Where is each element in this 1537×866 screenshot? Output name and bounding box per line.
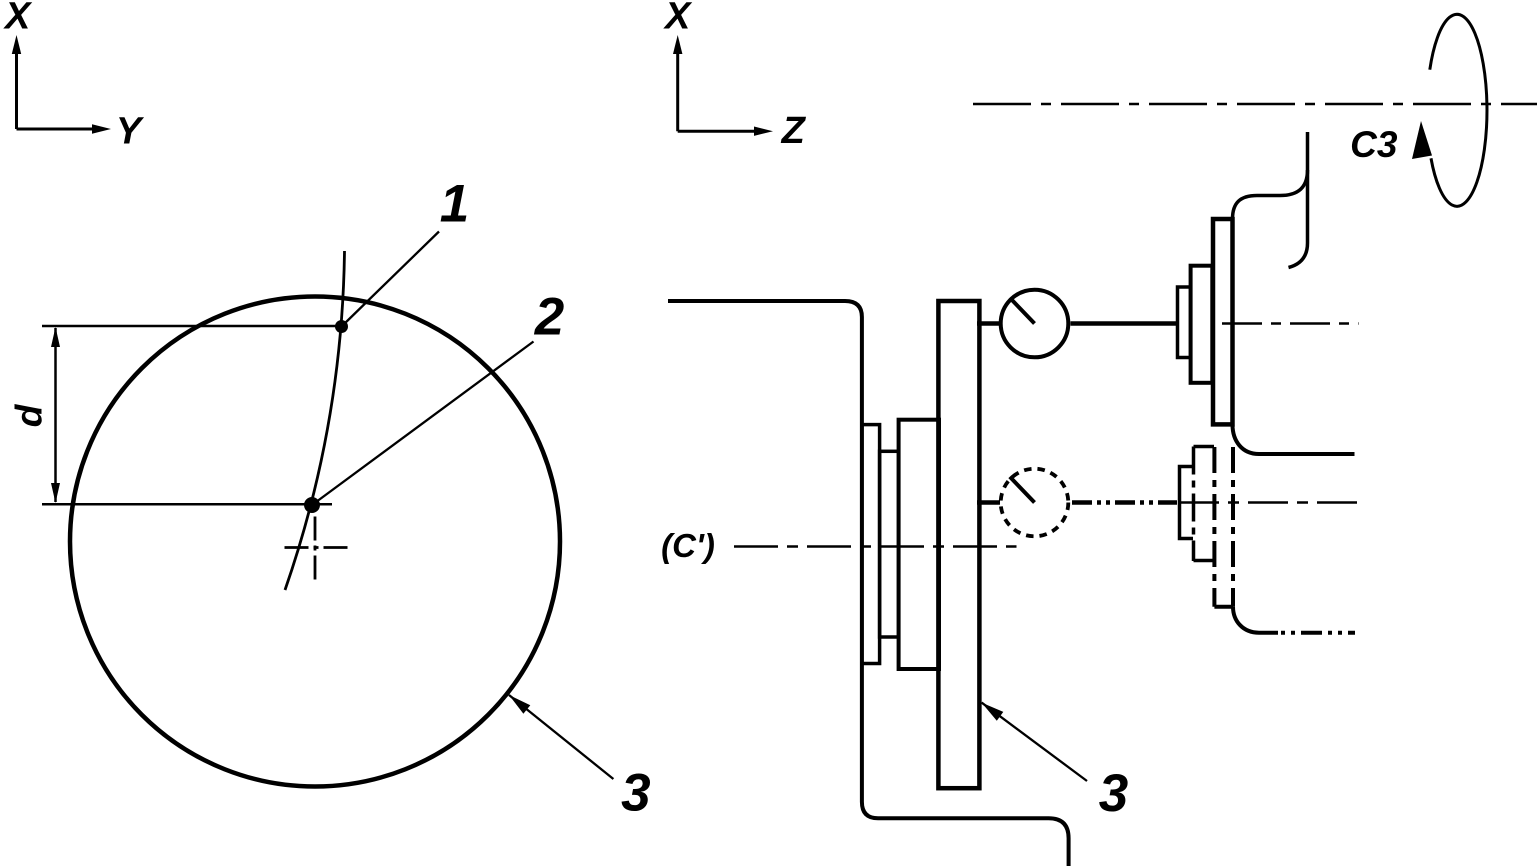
dial gauge 1 stylus stem right <box>1071 321 1178 326</box>
leader line 2 <box>312 342 534 506</box>
leader arrowhead 3 (left view) <box>509 695 530 714</box>
C3 rotation arrowhead <box>1412 121 1432 159</box>
test mandrel small step <box>1178 287 1191 358</box>
svg-text:Y: Y <box>116 111 145 153</box>
svg-text:3: 3 <box>1099 764 1128 823</box>
spindle hub C (rect) <box>899 420 939 669</box>
spindle neck B (rect) <box>880 451 899 637</box>
ghost mandrel large step bottom edge <box>1214 605 1233 609</box>
point 2 dot <box>304 497 320 513</box>
ghost dial body (dashed) <box>1001 469 1069 537</box>
leader line 3 (right view) <box>982 703 1087 781</box>
faceplate disc 3 (rect) <box>938 301 979 788</box>
machine column outline with base <box>668 301 1069 866</box>
dimension line d vertical <box>54 328 57 502</box>
dimension arrowhead bottom <box>51 483 60 503</box>
svg-text:Z: Z <box>781 110 807 152</box>
ghost mandrel small step bracket <box>1180 467 1194 539</box>
workpiece circle 3 (left view) <box>70 297 560 787</box>
mandrel axis centreline right <box>1222 322 1359 325</box>
test mandrel medium step <box>1191 266 1213 383</box>
dimension extension line upper (through point 1) <box>42 325 342 328</box>
spindle housing front edge with break hook <box>1289 132 1308 268</box>
point 1 dot <box>335 320 348 333</box>
svg-text:3: 3 <box>621 764 650 823</box>
dial gauge 1 needle <box>1010 298 1035 324</box>
C3 axis centreline <box>973 103 1537 106</box>
axis X arrowhead up (right view) <box>673 35 682 54</box>
axis X arrowhead up <box>12 35 21 54</box>
svg-text:1: 1 <box>440 175 469 234</box>
ghost mandrel medium step bottom edge <box>1194 559 1215 563</box>
svg-text:X: X <box>3 0 33 38</box>
spindle housing lower outline <box>1233 424 1355 454</box>
centre cross-hair horizontal <box>285 546 349 549</box>
centre cross-hair vertical <box>314 517 317 581</box>
ghost mandrel large step right edge (dashed) <box>1231 447 1235 607</box>
dial gauge 1 stem left <box>977 321 1000 326</box>
leader line 3 (left view) <box>509 695 613 779</box>
ghost axis centreline right <box>1179 501 1359 504</box>
ghost mandrel medium step top edge <box>1194 445 1215 449</box>
(C') centreline <box>734 545 1017 548</box>
dial gauge 1 body <box>1001 290 1069 358</box>
axis X (left view) vertical arrow line <box>17 52 95 129</box>
ghost mandrel large step left edge (dashed) <box>1212 447 1216 607</box>
ghost dial needle <box>1010 477 1035 503</box>
test mandrel large step <box>1213 219 1233 424</box>
axis X (right view) lines <box>678 52 756 131</box>
spindle housing S-curve upper <box>1233 170 1308 219</box>
C3 rotation ellipse <box>1430 14 1487 206</box>
ghost mandrel medium step left edge (dashed) <box>1192 447 1196 562</box>
ghost stylus stem (phantom) <box>1072 500 1177 505</box>
dimension arrowhead top <box>51 327 60 347</box>
svg-text:d: d <box>9 403 50 427</box>
ghost housing lower outline phantom line <box>1281 631 1355 635</box>
spindle step A (rect) <box>862 425 880 664</box>
svg-text:(C'): (C') <box>661 527 715 564</box>
dimension extension line lower (through point 2) <box>42 503 332 506</box>
axis Y arrowhead right <box>92 124 111 133</box>
ghost housing lower outline fillet <box>1233 607 1278 633</box>
leader arrowhead 3 (right view) <box>982 703 1004 721</box>
ghost dial stem left <box>977 500 1000 505</box>
svg-text:X: X <box>663 0 693 38</box>
leader line 1 <box>342 232 440 327</box>
svg-text:2: 2 <box>534 288 564 347</box>
axis Z arrowhead right <box>754 127 773 136</box>
svg-text:C3: C3 <box>1350 124 1398 165</box>
trajectory arc of axis <box>285 251 345 590</box>
